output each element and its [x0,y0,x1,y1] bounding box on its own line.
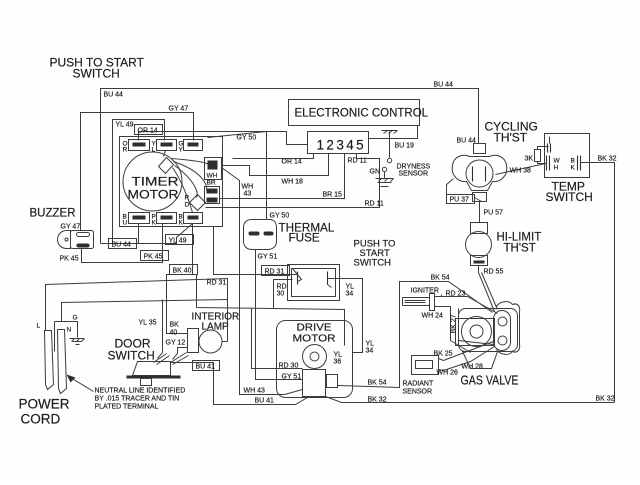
svg-text:RD: RD [277,284,287,291]
svg-text:BU 44: BU 44 [112,242,132,249]
svg-text:K: K [179,220,184,227]
svg-text:BK 54: BK 54 [368,380,387,387]
svg-text:RD 11: RD 11 [365,201,384,208]
svg-text:RD 30: RD 30 [279,363,299,370]
wire BK27 branch [459,309,494,345]
node label PU 37 [447,195,475,204]
svg-text:BK: BK [170,322,180,329]
svg-text:BK 25: BK 25 [434,351,453,358]
svg-text:MOTOR: MOTOR [128,188,179,202]
svg-text:YL: YL [346,284,355,291]
svg-text:YL 49: YL 49 [116,122,134,129]
node label BU 44 (boxed) [109,239,137,249]
svg-text:DRYNESS: DRYNESS [397,164,431,171]
timer terminal RD diamond [185,195,206,211]
svg-text:BR 15: BR 15 [323,192,343,199]
node label PK 45 (right) [141,251,169,261]
svg-text:BK 27: BK 27 [451,314,458,333]
svg-text:12345: 12345 [317,138,367,153]
door switch blades right [171,353,189,365]
svg-text:34: 34 [366,348,374,355]
wire BK25 sensor to valve [444,342,494,361]
wire WH18 timer WH to terminal 3 [222,154,329,176]
timer terminal OR (pin O R) [123,140,150,154]
push to start switch box [288,265,340,301]
svg-text:MOTOR: MOTOR [293,333,336,345]
svg-text:SENSOR: SENSOR [403,389,433,396]
svg-text:WH 43: WH 43 [244,388,266,395]
svg-text:OR 14: OR 14 [138,128,158,135]
wire RD30 long run [197,275,345,346]
svg-text:K: K [152,220,157,227]
svg-text:RD 31: RD 31 [265,269,285,276]
svg-text:WH 28: WH 28 [462,364,484,371]
radiant sensor body [412,356,444,375]
timer cam curve 3 [175,166,198,198]
svg-text:U: U [123,220,128,227]
timer terminal PK (pin P K) [152,213,177,227]
wire GY50 diagonal junction [208,132,267,138]
wire WH24 igniter to valve [451,307,471,353]
svg-text:WH: WH [242,184,254,191]
svg-text:PU 37: PU 37 [450,197,470,204]
push to start right contact [328,272,332,288]
wire lamp right terminal [223,341,228,343]
svg-text:34: 34 [346,291,354,298]
wire OR14 from timer top to electronic control [139,132,308,145]
svg-text:GY 51: GY 51 [258,254,278,261]
timer motor circle [123,152,182,211]
svg-text:36: 36 [334,359,342,366]
svg-text:PU 57: PU 57 [484,210,504,217]
wire GY50 down to thermal fuse [266,132,268,220]
neutral note arrow [67,375,94,392]
svg-text:D: D [185,202,190,209]
timer terminal BK (pin B K) [179,213,203,227]
svg-text:R: R [185,195,190,202]
power cord prong L [37,323,54,390]
svg-text:40: 40 [170,330,178,337]
svg-text:PK 45: PK 45 [144,254,163,261]
timer terminal BR [205,180,220,204]
node label RD 31 (right, boxed) [262,266,290,276]
svg-text:B: B [571,158,575,165]
svg-text:G: G [73,315,78,322]
svg-text:GY 47: GY 47 [61,224,81,231]
ground symbol power cord [70,339,85,345]
svg-text:FUSE: FUSE [289,232,320,245]
timer cam stub from YL terminal [164,151,166,157]
wire RD30 drop to motor terminal [252,309,303,369]
temp switch box [545,134,590,178]
timer terminal GY (pin G Y) [179,140,203,154]
wire RD55 second lead [482,273,498,310]
svg-text:43: 43 [244,191,252,198]
wire GY51 fuse to drive motor [256,250,303,380]
wire control right jog [369,126,418,139]
svg-text:30: 30 [277,291,285,298]
svg-text:GY 51: GY 51 [282,374,302,381]
svg-text:R: R [123,147,128,154]
wire PU57 to hi-limit [479,202,481,223]
node label BU 41 (at door, boxed) [193,361,220,371]
svg-text:YL 49: YL 49 [169,238,187,245]
temp switch WH contact [547,156,561,172]
svg-text:RD 55: RD 55 [484,269,504,276]
wire L power line to lamp/door area [46,279,228,342]
power cord neutral stub [54,322,56,352]
temp switch top contact [548,137,551,153]
svg-text:BU 44: BU 44 [104,92,124,99]
svg-text:SWITCH: SWITCH [546,190,593,204]
svg-text:GY 47: GY 47 [169,106,189,113]
svg-text:GY 50: GY 50 [237,135,257,142]
wire BK40 timer BK to interior lamp [167,224,193,334]
svg-text:Y: Y [179,147,184,154]
svg-text:TH'ST: TH'ST [494,131,528,145]
timer cam curve 1 [172,159,209,165]
wire BU41 door switch to motor [171,363,308,405]
svg-text:BU 41: BU 41 [196,364,216,371]
wire WH43 from timer WH to motor [222,168,303,395]
svg-text:NEUTRAL LINE IDENTIFIED: NEUTRAL LINE IDENTIFIED [95,388,186,395]
wire PU37 left hook [447,179,454,195]
svg-text:BK 32: BK 32 [598,156,617,163]
chassis ground under control [382,131,398,134]
wire OR14 stub from terminal 1 [233,154,314,159]
thermal fuse body [244,220,277,250]
wire neutral run to door area [62,300,228,322]
svg-text:K: K [571,165,576,172]
svg-text:BU 44: BU 44 [434,82,454,89]
svg-text:YL 35: YL 35 [139,320,157,327]
wire BK32 from temp switch to right bus [581,163,615,403]
wire RD31 timer to push-to-start [214,227,298,275]
timer motor box [120,137,223,227]
wire BK54 motor to gas valve [338,282,493,388]
ground symbol below dryness sensor [376,172,394,187]
wire WH38 to temp switch [496,164,546,175]
wire BK32 motor to right bus [326,397,615,403]
drive motor terminal block [303,370,326,397]
svg-text:POWER: POWER [19,397,70,412]
wire BU44 to timer BU [101,224,139,244]
svg-text:GN: GN [370,169,381,176]
svg-text:GY 12: GY 12 [166,340,186,347]
interior lamp bulb [188,329,223,354]
node label BK 40 (boxed) [170,265,198,275]
buzzer body [58,231,94,249]
svg-text:BK 32: BK 32 [368,397,387,404]
electronic control box U1 [289,100,420,126]
wire BR15 timer BR to terminal 4 [220,154,345,199]
svg-text:BUZZER: BUZZER [30,208,76,220]
wire PK45 buzzer to timer PK [82,224,163,263]
svg-text:GY 50: GY 50 [270,213,290,220]
wire WH26 sensor to valve [444,347,495,371]
wire YL49 loop [113,120,165,244]
wire BU19 to dryness sensor [389,132,391,158]
svg-text:N: N [67,327,72,334]
svg-text:H: H [554,165,559,172]
svg-text:BK 54: BK 54 [431,275,450,282]
wire YL35 down to door switch [158,300,163,359]
svg-text:YL: YL [366,341,375,348]
timer cam follower diamond [159,158,174,174]
svg-text:BR: BR [207,180,216,187]
timer motor label OR 14 [135,125,163,135]
timer terminal WH [205,158,222,180]
timer cam curve 2 [174,162,207,191]
svg-text:RADIANT: RADIANT [403,381,434,388]
svg-text:BU 41: BU 41 [255,398,275,405]
svg-text:3K: 3K [525,156,534,163]
dryness sensor contact (open circle) [387,158,391,162]
drive motor body [277,321,353,398]
drive motor side terminal [327,375,338,388]
svg-text:TIMER: TIMER [132,175,179,189]
svg-text:OR 14: OR 14 [282,159,302,166]
svg-text:RD 31: RD 31 [207,280,227,287]
wire GY12 lamp to door switch [173,348,188,360]
svg-text:WH 26: WH 26 [437,370,459,377]
drive motor rotor circles [303,345,327,369]
wire RD55 to gas valve [479,266,495,312]
svg-text:WH 24: WH 24 [422,313,444,320]
svg-text:BK 32: BK 32 [596,396,615,403]
wire RD23 igniter to valve [442,297,498,314]
wire RD30 from push-to-start down around motor [274,280,293,309]
wire BU44 top bus [101,89,479,244]
svg-text:TH'ST: TH'ST [504,243,536,255]
svg-text:SWITCH: SWITCH [108,349,155,363]
svg-text:SWITCH: SWITCH [354,258,392,269]
push to start left contact [293,269,302,285]
svg-text:W: W [554,158,561,165]
svg-text:YL: YL [334,352,343,359]
electronic control terminal strip 1 2 3 4 5 [308,132,369,154]
svg-text:SWITCH: SWITCH [73,67,120,81]
hi-limit thermostat [466,223,492,266]
svg-text:GAS VALVE: GAS VALVE [461,373,519,388]
wire RD11 timer RD to terminal 5 [206,154,380,208]
wire GY47 buzzer to timer [81,113,194,231]
wire PU37 hook to bottom terminal [475,198,482,202]
svg-text:WH 18: WH 18 [282,179,304,186]
svg-text:PK 45: PK 45 [60,256,79,263]
svg-text:L: L [37,323,41,330]
PUSH TO START SWITCH title text (top left) [50,56,145,81]
svg-text:BY .015 TRACER AND TIN: BY .015 TRACER AND TIN [95,396,180,403]
door switch base [127,362,181,386]
igniter body [403,294,451,311]
svg-text:BK 40: BK 40 [173,268,192,275]
svg-text:SENSOR: SENSOR [399,171,429,178]
node GN contact [382,167,386,171]
wire YL49 diagonal from timer BK [139,224,193,244]
wire ground jog [55,322,78,338]
resistor 3K [525,147,549,164]
temp switch BK contact [571,156,581,172]
power cord prong N [58,327,72,394]
node label BK 40 (at lamp) [170,322,180,337]
cycling thermostat body [452,144,507,202]
gas valve body [456,302,520,369]
wire YL34 from push-to-start to motor [328,279,363,353]
timer cam line to BK terminal [173,168,193,213]
svg-text:PLATED TERMINAL: PLATED TERMINAL [95,404,159,411]
svg-text:WH: WH [207,173,218,180]
door switch blades left [154,354,170,365]
node label YL 49 (boxed) [166,235,194,245]
timer terminal BU (pin B U) [123,213,150,227]
svg-text:CORD: CORD [21,412,61,427]
svg-text:ELECTRONIC CONTROL: ELECTRONIC CONTROL [295,108,429,120]
timer terminal YL (pin Y L) [152,140,177,154]
svg-text:WH 38: WH 38 [510,168,532,175]
svg-text:BU 19: BU 19 [395,143,415,150]
